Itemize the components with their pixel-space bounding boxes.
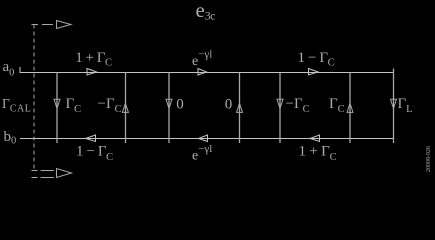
wire branch -Gc up (section 1) xyxy=(125,73,127,144)
wire bottom line b0 xyxy=(20,138,394,140)
wire top line a0 to load xyxy=(20,68,394,73)
svg-text:20008-926: 20008-926 xyxy=(426,146,432,172)
arrowhead down on branch 0 at x169 xyxy=(166,99,172,108)
arrowhead up on branch -Gc at x125 xyxy=(122,103,128,112)
arrowhead down on branch Gc at x57 xyxy=(54,99,60,108)
svg-text:ΓL: ΓL xyxy=(398,96,413,115)
arrowhead left on branch 1+Gc bottom xyxy=(310,135,320,142)
svg-text:1 − ΓC: 1 − ΓC xyxy=(298,50,335,69)
arrowhead down on branch -Gc at x280 xyxy=(277,99,283,108)
wire branch GL load xyxy=(393,69,395,144)
svg-text:1 + ΓC: 1 + ΓC xyxy=(299,144,337,164)
arrowhead right on branch 1-Gc top xyxy=(309,69,319,76)
wire branch Gc up (section 2) xyxy=(349,73,351,144)
dashed block arrow shaft bottom top edge xyxy=(32,170,54,172)
svg-text:e−γl: e−γl xyxy=(192,49,212,70)
wire branch Gc down at cal plane xyxy=(56,73,58,144)
wire branch -Gc down (section 2) xyxy=(279,73,281,144)
svg-text:e−γl: e−γl xyxy=(192,143,212,164)
svg-text:1 − ΓC: 1 − ΓC xyxy=(76,144,113,164)
arrowhead down on branch GL at x394 xyxy=(391,99,397,108)
wire branch 0 down (line section left) xyxy=(168,73,170,144)
dashed reference plane marker vertical xyxy=(33,25,35,172)
dashed block arrow shaft bottom lower edge xyxy=(32,177,54,179)
svg-text:ΓCAL: ΓCAL xyxy=(2,96,31,114)
svg-text:b0: b0 xyxy=(4,129,17,147)
arrowhead right on branch e-gl top xyxy=(198,69,207,76)
arrowhead left on branch e-gl bottom xyxy=(199,135,208,142)
svg-text:a0: a0 xyxy=(3,59,15,79)
arrowhead up on branch Gc at x350 xyxy=(347,103,353,112)
open arrowhead of bottom block arrow xyxy=(57,169,72,178)
wire branch 0 up (line section right) xyxy=(239,73,241,144)
svg-text:0: 0 xyxy=(225,97,233,113)
svg-text:−ΓC: −ΓC xyxy=(286,96,310,115)
svg-text:0: 0 xyxy=(176,97,184,113)
arrowhead right on branch 1+Gc xyxy=(87,69,97,76)
open arrowhead of top dashed arrow xyxy=(57,21,72,29)
svg-text:ΓC: ΓC xyxy=(66,96,82,115)
svg-text:e3c: e3c xyxy=(196,0,216,23)
svg-text:−ΓC: −ΓC xyxy=(98,96,122,115)
arrowhead up on branch 0 at x239 xyxy=(237,103,243,112)
svg-text:1 + ΓC: 1 + ΓC xyxy=(75,50,112,69)
dashed arrow shaft top xyxy=(32,24,54,26)
svg-text:ΓC: ΓC xyxy=(329,96,345,115)
arrowhead left on branch 1-Gc bottom xyxy=(86,135,96,142)
